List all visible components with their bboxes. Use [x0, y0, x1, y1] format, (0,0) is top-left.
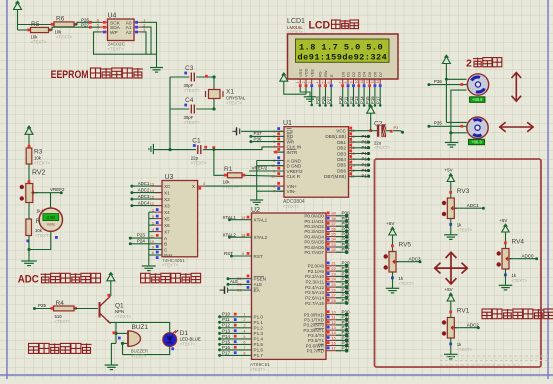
svg-text:ADC2: ADC2 — [467, 322, 480, 327]
svg-text:P1.7: P1.7 — [254, 353, 264, 358]
title servo block — [466, 57, 502, 69]
svg-text:U4: U4 — [108, 13, 117, 20]
svg-text:P07: P07 — [342, 247, 351, 252]
wire R3 to RV2 — [28, 164, 30, 184]
svg-text:P26: P26 — [321, 96, 326, 104]
svg-text:4: 4 — [152, 228, 154, 232]
svg-text:12: 12 — [150, 202, 154, 206]
svg-text:C3: C3 — [185, 65, 194, 72]
svg-text:VREF/2: VREF/2 — [252, 166, 268, 171]
capacitor C2 — [371, 120, 393, 150]
svg-text:P26: P26 — [342, 293, 351, 298]
wire XTAL1 mcu — [223, 215, 252, 221]
svg-text:24: 24 — [332, 278, 336, 282]
svg-text:P14: P14 — [359, 96, 364, 104]
svg-text:<TEXT>: <TEXT> — [223, 184, 239, 189]
svg-text:25: 25 — [332, 283, 336, 287]
svg-text:C4: C4 — [185, 97, 194, 104]
adc INTR stub — [274, 151, 284, 154]
ground RV4 — [499, 269, 513, 290]
svg-text:P16: P16 — [370, 96, 375, 104]
svg-text:8: 8 — [344, 82, 348, 84]
svg-text:13: 13 — [150, 182, 154, 186]
svg-text:4: 4 — [316, 82, 320, 84]
svg-text:9: 9 — [349, 82, 353, 84]
power label RV3 — [445, 168, 453, 173]
svg-text:P12: P12 — [222, 323, 231, 328]
svg-text:<TEXT>: <TEXT> — [56, 35, 72, 40]
svg-text:14: 14 — [150, 189, 154, 193]
svg-text:ALE: ALE — [230, 279, 238, 284]
svg-text:X3: X3 — [164, 203, 170, 208]
svg-text:C1: C1 — [192, 137, 201, 144]
svg-text:<TEXT>: <TEXT> — [35, 233, 51, 238]
svg-text:P14: P14 — [222, 334, 231, 339]
svg-text:13: 13 — [371, 80, 375, 84]
svg-text:10: 10 — [150, 240, 154, 244]
wire R4 to Q1 base — [74, 308, 98, 310]
svg-text:P11: P11 — [362, 140, 370, 145]
mcu PSEN ALE EA stubs — [227, 275, 252, 287]
buzzer BUZ1 — [113, 324, 149, 359]
capacitor C3 — [170, 65, 214, 93]
lcd data wires — [338, 87, 344, 107]
wire motor1 return — [451, 90, 467, 142]
capacitor C1 — [153, 137, 215, 165]
lcd pin stubs — [296, 79, 382, 87]
svg-text:BUZ1: BUZ1 — [132, 324, 149, 331]
svg-text:INH: INH — [164, 253, 172, 258]
svg-text:P10: P10 — [362, 134, 370, 139]
svg-text:P36: P36 — [254, 136, 263, 141]
adc left pin stubs — [271, 127, 284, 193]
wire ADC1 — [130, 181, 162, 187]
svg-text:X0: X0 — [164, 184, 170, 189]
svg-text:XTAL2: XTAL2 — [223, 232, 237, 237]
wire cap rail down — [168, 109, 171, 151]
svg-text:10: 10 — [355, 80, 359, 84]
motor M2 angle display — [469, 139, 485, 145]
svg-text:VREF/2: VREF/2 — [287, 169, 304, 174]
svg-text:ADC4: ADC4 — [138, 201, 150, 206]
lcd header labels — [287, 18, 305, 35]
wire lcd VEE — [310, 87, 313, 106]
wire motor2 return — [449, 131, 467, 134]
svg-text:CLK R: CLK R — [287, 174, 301, 179]
svg-text:9: 9 — [242, 252, 244, 256]
svg-text:<TEXT>: <TEXT> — [283, 204, 299, 209]
svg-text:P0.7/AD7: P0.7/AD7 — [304, 250, 324, 255]
power arrow RV3 — [447, 174, 455, 198]
svg-text:<TEXT>: <TEXT> — [226, 101, 242, 106]
svg-text:ADC: ADC — [18, 274, 39, 286]
arrow horizontal servo — [500, 122, 533, 132]
svg-text:12: 12 — [365, 80, 369, 84]
ground RV5 — [386, 272, 400, 293]
svg-text:26: 26 — [332, 288, 336, 292]
motor M1 angle display — [470, 97, 486, 103]
svg-text:P17: P17 — [362, 174, 370, 179]
svg-text:5: 5 — [97, 23, 99, 27]
mcu U2 body — [252, 213, 327, 359]
svg-text:P2.3/A11: P2.3/A11 — [305, 280, 324, 285]
svg-text:ADC3: ADC3 — [409, 256, 422, 261]
svg-text:P2.0/A8: P2.0/A8 — [308, 264, 325, 269]
svg-text:Volts: Volts — [47, 223, 55, 227]
svg-text:D GND: D GND — [287, 164, 302, 169]
title sensor array — [482, 309, 553, 319]
svg-text:<TEXT>: <TEXT> — [184, 120, 200, 125]
svg-text:DB2: DB2 — [337, 146, 346, 151]
wire C2 right net — [393, 126, 404, 134]
wire to R6 — [18, 24, 55, 26]
svg-text:7: 7 — [243, 346, 245, 350]
power label RV4 — [499, 218, 507, 223]
voltmeter — [39, 208, 62, 231]
svg-text:3: 3 — [308, 82, 312, 84]
svg-text:X7: X7 — [164, 229, 170, 234]
wire C1 to CLK IN — [214, 147, 284, 150]
resistor R3 — [26, 145, 50, 166]
ground mcu label area — [251, 207, 260, 214]
svg-text:<TEXT>: <TEXT> — [457, 228, 473, 233]
svg-text:31: 31 — [237, 288, 241, 292]
svg-text:X6: X6 — [164, 223, 170, 228]
svg-text:P25: P25 — [38, 303, 47, 308]
wire RV2 wiper VREF2 — [33, 187, 65, 194]
svg-text:19: 19 — [241, 216, 245, 220]
ground alarm — [105, 343, 119, 369]
svg-text:P2.1/A9: P2.1/A9 — [308, 269, 325, 274]
svg-text:P2.5/A13: P2.5/A13 — [305, 290, 324, 295]
eeprom U4 — [97, 13, 145, 52]
wire R5 to SDA P27 — [49, 27, 101, 30]
svg-text:<TEXT>: <TEXT> — [115, 314, 131, 319]
svg-text:11: 11 — [351, 175, 355, 179]
svg-text:P24: P24 — [342, 282, 351, 287]
svg-text:X4: X4 — [164, 210, 170, 215]
svg-text:VEE: VEE — [309, 69, 314, 77]
ground ADC ref — [21, 250, 37, 266]
svg-text:P23: P23 — [342, 277, 351, 282]
capacitor C4 — [170, 97, 214, 125]
title alarm block — [29, 343, 92, 353]
ground RV1 — [444, 338, 458, 359]
wire ADC4 — [130, 201, 162, 207]
sensor array box — [375, 159, 542, 367]
svg-text:<TEXT>: <TEXT> — [131, 353, 147, 358]
svg-text:RST: RST — [254, 254, 263, 259]
title channel switch — [141, 273, 201, 283]
wire Q1 emitter to rail — [111, 322, 117, 323]
wire P37 to RD — [249, 131, 284, 138]
svg-text:D2: D2 — [351, 71, 356, 77]
net label P25 — [33, 303, 47, 310]
ground eeprom — [150, 54, 163, 72]
wire to voltmeter — [50, 193, 52, 209]
mcu P3 wires — [326, 310, 350, 353]
transistor Q1 — [100, 294, 132, 324]
svg-text:37: 37 — [332, 222, 336, 226]
svg-text:22: 22 — [332, 267, 336, 271]
svg-text:P16: P16 — [222, 345, 231, 350]
svg-text:P1.6: P1.6 — [254, 348, 264, 353]
svg-text:R5: R5 — [31, 21, 40, 28]
power label RV1 — [445, 287, 453, 292]
wire emitter branch down — [114, 322, 117, 343]
svg-text:<TEXT>: <TEXT> — [374, 145, 390, 150]
svg-text:P13: P13 — [362, 151, 370, 156]
wire buzzer to bottom rail — [122, 343, 124, 354]
power arrow lcd left — [280, 73, 306, 94]
svg-text:P2.4/A12: P2.4/A12 — [305, 285, 324, 290]
svg-text:9: 9 — [152, 246, 154, 250]
svg-text:P11: P11 — [343, 96, 348, 104]
potentiometer RV3 — [442, 188, 473, 233]
wire lcd VSS ground — [300, 87, 316, 101]
lcd control wires — [315, 87, 321, 107]
potentiometer RV5 — [384, 242, 415, 287]
ground mux — [142, 266, 156, 271]
wire buzzer top pin — [116, 332, 128, 334]
svg-text:P2.2/A10: P2.2/A10 — [305, 274, 324, 279]
svg-text:D7: D7 — [378, 71, 383, 77]
svg-text:P37: P37 — [342, 346, 351, 351]
wire P24 to B — [129, 238, 162, 248]
svg-text:R6: R6 — [56, 16, 65, 23]
svg-text:4: 4 — [273, 145, 275, 149]
wire C1 to R1 — [213, 148, 228, 175]
svg-text:3: 3 — [203, 182, 205, 186]
svg-text:RV3: RV3 — [457, 188, 470, 195]
svg-text:D1: D1 — [346, 71, 351, 77]
svg-text:6: 6 — [243, 340, 245, 344]
svg-text:RV5: RV5 — [399, 242, 412, 249]
svg-text:8: 8 — [243, 351, 245, 355]
svg-text:P1.3: P1.3 — [254, 331, 264, 336]
wire ADC2 — [130, 188, 162, 194]
wire R6 to SCK P26 — [74, 22, 100, 24]
power arrow adc VCC — [367, 105, 375, 131]
wire P36 servo — [427, 79, 466, 86]
svg-text:P3: P3 — [394, 126, 399, 130]
svg-text:RV2: RV2 — [32, 170, 46, 177]
arrow vertical servo — [512, 73, 522, 102]
ground servo — [445, 143, 459, 148]
mcu P2 wires — [326, 261, 350, 305]
svg-text:<TEXT>: <TEXT> — [180, 342, 196, 347]
wire mux X to VIN+ — [205, 185, 284, 187]
motor M2 — [467, 117, 488, 138]
svg-text:VIN-: VIN- — [287, 189, 297, 194]
svg-text:P12: P12 — [349, 96, 354, 104]
resistor R4 — [50, 300, 77, 324]
power arrow VCC eeprom — [14, 1, 22, 30]
svg-text:LCD: LCD — [309, 19, 331, 31]
svg-text:U1: U1 — [283, 120, 292, 127]
wire A1 — [142, 27, 152, 54]
power arrow servo — [442, 55, 450, 122]
svg-text:6: 6 — [327, 82, 331, 84]
title LCD block — [309, 19, 359, 31]
capacitor EA tie — [220, 286, 252, 294]
power arrow ADC ref — [25, 126, 33, 148]
svg-text:ADC1: ADC1 — [467, 203, 480, 208]
svg-text:28: 28 — [332, 299, 336, 303]
svg-text:P17: P17 — [376, 96, 381, 104]
svg-text:5: 5 — [321, 82, 325, 84]
svg-text:B: B — [164, 242, 167, 247]
svg-text:R: R — [36, 218, 41, 225]
svg-text:13: 13 — [332, 326, 336, 330]
power arrow RV4 — [502, 224, 510, 248]
sheet border bottom — [0, 374, 553, 376]
svg-text:DB1: DB1 — [337, 140, 346, 145]
svg-text:P14: P14 — [362, 157, 370, 162]
svg-text:VREF2: VREF2 — [50, 187, 65, 192]
svg-text:ADC3: ADC3 — [138, 194, 150, 199]
potentiometer RV2 — [20, 170, 46, 214]
power label RV5 — [386, 221, 394, 226]
svg-text:15: 15 — [150, 195, 154, 199]
svg-text:D5: D5 — [367, 71, 372, 77]
svg-text:D0: D0 — [340, 71, 345, 77]
crystal X1 — [206, 75, 247, 110]
svg-text:R3: R3 — [34, 149, 43, 156]
mux U3 — [162, 174, 198, 268]
svg-text:<TEXT>: <TEXT> — [512, 278, 528, 283]
svg-text:11: 11 — [150, 234, 154, 238]
svg-text:1: 1 — [152, 208, 154, 212]
svg-text:X2: X2 — [164, 197, 170, 202]
svg-text:2: 2 — [152, 221, 154, 225]
resistor R6 — [51, 16, 77, 40]
wire AGND DGND VIN- ground — [257, 161, 284, 200]
svg-text:+: + — [41, 208, 44, 214]
svg-text:P13: P13 — [354, 96, 359, 104]
svg-text:P27: P27 — [327, 96, 332, 104]
svg-text:<TEXT>: <TEXT> — [184, 88, 200, 93]
wire A2 — [142, 32, 147, 54]
svg-text:ALE: ALE — [254, 282, 263, 287]
svg-text:RST: RST — [224, 251, 233, 256]
svg-text:DB4: DB4 — [337, 157, 346, 162]
power arrow RV5 — [389, 227, 397, 251]
svg-text:P27: P27 — [81, 23, 90, 28]
svg-text:ADC1: ADC1 — [138, 181, 150, 186]
svg-text:P35: P35 — [434, 121, 443, 126]
wire P25 to R4 — [35, 308, 54, 310]
svg-text:P15: P15 — [222, 339, 231, 344]
svg-text:ADC0: ADC0 — [522, 253, 535, 258]
svg-text:P17: P17 — [222, 350, 231, 355]
mcu internal pin names — [250, 214, 325, 372]
wire cap join — [169, 77, 171, 109]
faint note text — [440, 356, 548, 365]
power arrow RV1 — [447, 293, 455, 317]
sheet border left — [6, 0, 8, 379]
svg-text:5: 5 — [152, 215, 154, 219]
svg-text:DB7(MSB): DB7(MSB) — [324, 174, 346, 179]
wire buzzer bottom pin — [121, 342, 128, 345]
svg-text:36: 36 — [332, 227, 336, 231]
svg-text:21: 21 — [332, 262, 336, 266]
svg-text:DB0(LSB): DB0(LSB) — [325, 134, 346, 139]
svg-text:3: 3 — [243, 324, 245, 328]
svg-text:P12: P12 — [362, 145, 370, 150]
svg-text:19: 19 — [271, 175, 275, 179]
svg-text:P20: P20 — [342, 261, 351, 266]
svg-text:10: 10 — [332, 311, 336, 315]
svg-text:+5V: +5V — [386, 221, 394, 226]
svg-text:DB3: DB3 — [337, 151, 346, 156]
svg-text:WP: WP — [110, 30, 118, 36]
svg-text:P1.5: P1.5 — [254, 342, 264, 347]
svg-text:<TEXT>: <TEXT> — [250, 367, 266, 372]
svg-text:P1.2: P1.2 — [254, 326, 264, 331]
svg-text:<TEXT>: <TEXT> — [34, 161, 50, 166]
svg-text:5: 5 — [243, 335, 245, 339]
svg-text:15: 15 — [332, 336, 336, 340]
svg-text:P10: P10 — [338, 96, 343, 104]
svg-text:1: 1 — [243, 313, 245, 317]
svg-text:+5V: +5V — [445, 287, 453, 292]
svg-text:+5V: +5V — [445, 168, 453, 173]
svg-text:<TEXT>: <TEXT> — [31, 40, 47, 45]
svg-text:LCD1: LCD1 — [287, 18, 305, 25]
svg-text:P25: P25 — [342, 287, 351, 292]
wire RST mcu — [224, 251, 252, 257]
svg-text:P22: P22 — [342, 271, 351, 276]
potentiometer RV4 — [497, 239, 528, 284]
svg-text:2.50: 2.50 — [47, 215, 56, 220]
svg-text:14: 14 — [376, 80, 380, 84]
svg-text:XTAL2: XTAL2 — [254, 235, 268, 240]
wire bottom rail — [123, 346, 170, 354]
svg-text:D4: D4 — [362, 71, 367, 77]
wire R2 bottom rail — [27, 231, 50, 251]
svg-text:11: 11 — [360, 80, 364, 84]
svg-text:P16: P16 — [362, 168, 370, 173]
svg-text:X1: X1 — [226, 89, 234, 96]
svg-text:32: 32 — [332, 248, 336, 252]
ground RV3 — [444, 219, 458, 240]
potentiometer RV1 — [442, 308, 473, 353]
svg-text:17: 17 — [332, 347, 336, 351]
svg-text:P27: P27 — [342, 298, 351, 303]
svg-text:23: 23 — [332, 272, 336, 276]
lcd pin names — [298, 68, 383, 77]
wire RV2 to R2 — [28, 203, 30, 220]
svg-text:<TEXT>: <TEXT> — [399, 281, 415, 286]
svg-text:R1: R1 — [224, 166, 233, 173]
svg-text:P1.0: P1.0 — [254, 315, 264, 320]
svg-text:P25: P25 — [315, 96, 320, 104]
wire VREF2 input — [249, 166, 284, 171]
title EEPROM block — [51, 68, 143, 81]
svg-text:P15: P15 — [365, 96, 370, 104]
svg-text:P2.6/A14: P2.6/A14 — [305, 296, 324, 301]
svg-text:de91:159de92:324: de91:159de92:324 — [298, 52, 388, 62]
svg-text:P1.1: P1.1 — [254, 320, 264, 325]
wire ADC1 RV3 — [454, 203, 485, 210]
svg-text:D6: D6 — [373, 71, 378, 77]
svg-text:EA: EA — [254, 288, 261, 293]
svg-text:16: 16 — [332, 341, 336, 345]
led D1 — [163, 330, 201, 350]
resistor R1 — [223, 166, 284, 190]
svg-text:WR: WR — [287, 139, 295, 144]
